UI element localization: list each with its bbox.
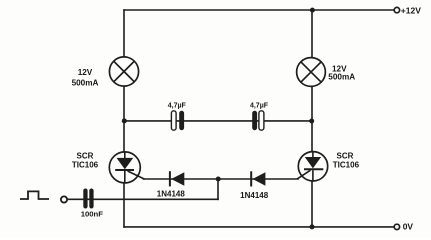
- wire: input line from terminal through 100nF: [67, 198, 218, 200]
- terminal 0V: [394, 224, 399, 229]
- svg-text:+12V: +12V: [401, 5, 421, 15]
- SCR TIC106 right: [297, 152, 328, 181]
- capacitor C 4,7uF right (electrolytic): [252, 111, 264, 130]
- svg-text:0V: 0V: [403, 222, 414, 232]
- wire: riser from input line to trigger junction: [217, 179, 219, 199]
- label SCR left: SCR / TIC106: [72, 152, 99, 170]
- wire: middle coupling wire between branches: [124, 120, 312, 122]
- svg-text:1N4148: 1N4148: [157, 190, 186, 199]
- label lamp right value 12V / 500mA: [328, 64, 355, 81]
- junction: middle wire / right branch: [309, 119, 314, 124]
- junction: trigger row / input riser: [216, 177, 221, 182]
- wire: 0V bottom rail: [124, 226, 394, 228]
- label SCR right: SCR / TIC106: [333, 151, 360, 169]
- label lamp left value 12V / 500mA: [72, 68, 99, 87]
- diode D 1N4148 left: [169, 171, 184, 186]
- diode D 1N4148 right: [250, 171, 265, 186]
- svg-text:500mA: 500mA: [72, 78, 99, 87]
- svg-text:12V: 12V: [78, 68, 93, 77]
- junction: top rail / right branch: [310, 8, 315, 13]
- capacitor C 100nF input: [83, 189, 93, 209]
- svg-text:SCR: SCR: [337, 151, 354, 160]
- svg-text:100nF: 100nF: [81, 210, 104, 219]
- svg-text:500mA: 500mA: [328, 73, 355, 82]
- SCR TIC106 left: [109, 152, 144, 183]
- svg-text:4,7µF: 4,7µF: [168, 102, 187, 109]
- junction: middle wire / left branch: [122, 118, 127, 123]
- svg-text:TIC106: TIC106: [72, 160, 99, 169]
- terminal +12V: [394, 7, 399, 12]
- lamp left 12V 500mA: [109, 57, 138, 86]
- svg-text:4,7µF: 4,7µF: [250, 102, 269, 109]
- pulse waveform symbol: [20, 191, 49, 199]
- wire: right branch vertical: [311, 10, 313, 227]
- lamp right 12V 500mA: [297, 58, 326, 87]
- wire: left branch vertical (anode chain): [123, 10, 125, 227]
- svg-text:1N4148: 1N4148: [240, 191, 269, 200]
- capacitor C 4,7uF left (electrolytic): [171, 111, 184, 130]
- terminal: trigger input: [61, 196, 67, 202]
- wire: +12V top rail: [124, 9, 394, 11]
- wire: trigger row between SCR gates: [144, 178, 299, 180]
- svg-text:SCR: SCR: [77, 152, 94, 161]
- junction: bottom rail / right branch: [310, 224, 315, 229]
- svg-text:TIC106: TIC106: [333, 161, 360, 170]
